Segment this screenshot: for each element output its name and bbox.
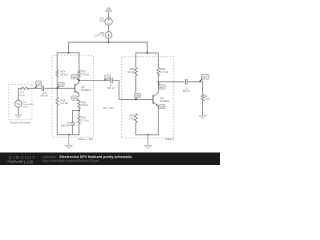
wire R05 to collector node2 bbox=[157, 76, 159, 82]
capacitor C1 680 uF bbox=[61, 121, 75, 128]
svg-text:6.2V: 6.2V bbox=[160, 87, 165, 89]
svg-text:3.1V: 3.1V bbox=[202, 77, 207, 79]
node annotation bubble (Q2 base) bbox=[134, 93, 140, 99]
wire R08 to bottom rail bbox=[56, 105, 58, 134]
svg-text:680 uF: 680 uF bbox=[61, 123, 70, 127]
ammeter AM1 0.677 uA bbox=[94, 32, 112, 39]
node annotation bubble (Q2 emitter) bbox=[159, 105, 166, 109]
wire V01 to AM1 bbox=[108, 25, 110, 31]
wire VS1 top bbox=[17, 88, 19, 100]
power supply arrow (+V net, up) bbox=[105, 7, 112, 18]
junction tap bbox=[78, 110, 80, 112]
svg-text:1.7V: 1.7V bbox=[36, 83, 41, 85]
junction stage2 out bbox=[157, 81, 159, 83]
resistor R02 1.2 k bbox=[78, 116, 89, 124]
svg-text:50 Ω: 50 Ω bbox=[20, 95, 25, 97]
capacitor C2 680 uF bbox=[107, 78, 115, 90]
svg-text:1 kΩ: 1 kΩ bbox=[204, 97, 210, 101]
resistor R08 1.2 k bbox=[56, 97, 68, 105]
CircuitLab logo bbox=[7, 155, 36, 165]
svg-text:680 uF: 680 uF bbox=[183, 91, 191, 93]
svg-text:2N3904: 2N3904 bbox=[81, 88, 91, 92]
resistor R01 4.9 k bbox=[78, 70, 89, 77]
resistor RS1 50 ohm bbox=[18, 87, 29, 97]
junction base node bbox=[56, 87, 58, 89]
rail wire stage1 top bbox=[57, 53, 79, 70]
svg-text:LAB: LAB bbox=[24, 159, 34, 164]
svg-text:91 kΩ: 91 kΩ bbox=[127, 70, 134, 74]
voltage source V01 12 V bbox=[99, 17, 112, 25]
junction ground stage2 bbox=[147, 134, 149, 136]
svg-text:39 kΩ: 39 kΩ bbox=[60, 73, 67, 77]
resistor R05 4.7 k bbox=[157, 67, 168, 75]
node annotation bubble (stage1 out) bbox=[104, 75, 110, 80]
wire tap to C1 bbox=[72, 111, 79, 123]
source VS1 sine bbox=[15, 100, 35, 108]
transistor Q1 2N3904 bbox=[75, 81, 91, 98]
junction rail1/feed bbox=[68, 52, 70, 54]
resistor RL 1 k bbox=[201, 94, 210, 101]
svg-text:hfe = 100: hfe = 100 bbox=[103, 107, 114, 110]
svg-text:4.9 kΩ: 4.9 kΩ bbox=[81, 73, 89, 77]
svg-text:1.8V: 1.8V bbox=[135, 96, 140, 98]
node annotation bubble (R01 collector) bbox=[71, 75, 78, 81]
dashed box Stage 2 bbox=[122, 57, 174, 138]
node annotation bubble (output Vout) bbox=[199, 74, 209, 81]
wire R04 to base node bbox=[56, 77, 58, 98]
node annotation bubble (Q1 emitter) bbox=[72, 96, 79, 101]
transistor Q2 2N3904 bbox=[153, 82, 170, 135]
junction base node2 bbox=[135, 99, 137, 101]
svg-text:Function Generator: Function Generator bbox=[10, 122, 31, 125]
dashed box Stage 1 bbox=[52, 56, 93, 137]
wire R06 to base node2 bbox=[135, 76, 137, 100]
svg-text:7.1V: 7.1V bbox=[106, 77, 111, 79]
ground arrow function generator bbox=[15, 115, 22, 119]
bottom rail stage1 bbox=[57, 134, 79, 136]
svg-text:Stage 2: Stage 2 bbox=[165, 138, 174, 141]
svg-text:http://circuitlab.com/c/62s8mn: http://circuitlab.com/c/62s8mn22jvdb bbox=[43, 159, 100, 163]
wire fngen to C4 to base bbox=[29, 87, 57, 89]
capacitor C4 680 uF bbox=[41, 86, 49, 98]
svg-text:5 kHz: 5 kHz bbox=[23, 106, 29, 108]
wire stage2 out to C3 bbox=[158, 81, 184, 83]
capacitor C3 680 uF bbox=[183, 79, 191, 93]
svg-text:1.2V: 1.2V bbox=[160, 107, 165, 109]
wire C2 to stage2 base bbox=[113, 81, 153, 100]
junction ground stage1 bbox=[68, 134, 70, 136]
bottom rail stage2 bbox=[136, 134, 159, 136]
rail wire stage2 top bbox=[136, 53, 159, 68]
wire AM1 to bus bbox=[108, 38, 110, 42]
resistor R04 39 k bbox=[56, 70, 68, 77]
wire VS1 bottom bbox=[17, 107, 19, 114]
svg-text:1.7V: 1.7V bbox=[59, 85, 64, 87]
node annotation bubble (input) bbox=[35, 81, 42, 88]
svg-text:4.9V: 4.9V bbox=[72, 77, 77, 79]
ground arrow stage1 bbox=[65, 135, 73, 149]
svg-text:4.7 kΩ: 4.7 kΩ bbox=[160, 70, 168, 74]
resistor R06 91 k bbox=[127, 67, 137, 75]
svg-text:1.2 kΩ: 1.2 kΩ bbox=[81, 118, 89, 122]
wire C1 to bottom rail bbox=[71, 125, 73, 135]
ground arrow output bbox=[199, 115, 207, 119]
wire RL to ground bbox=[202, 101, 204, 115]
dashed box function generator bbox=[9, 84, 32, 119]
node annotation bubble (Q1 base) bbox=[57, 82, 64, 88]
wire R02 to bottom rail bbox=[78, 124, 80, 135]
svg-text:12 V: 12 V bbox=[99, 20, 104, 23]
node annotation bubble (Q2 collector) bbox=[158, 82, 165, 89]
svg-text:1.1V: 1.1V bbox=[73, 98, 78, 100]
svg-text:680 uF: 680 uF bbox=[107, 88, 115, 90]
junction stage1 out bbox=[78, 80, 80, 82]
svg-text:680 uF: 680 uF bbox=[41, 95, 49, 97]
svg-text:Stage 1 - Diff: Stage 1 - Diff bbox=[78, 138, 93, 141]
wire C3 to RL bbox=[188, 82, 203, 94]
resistor R07 1 k bbox=[129, 114, 137, 123]
junction bus/ammeter bbox=[108, 41, 110, 43]
svg-text:2N3904: 2N3904 bbox=[160, 99, 170, 103]
wire stage1 out to C2 bbox=[79, 80, 110, 82]
resistor R03 130 ohm bbox=[78, 100, 89, 109]
junction rail2/feed bbox=[146, 52, 148, 54]
supply bus wire bbox=[69, 42, 148, 53]
svg-text:130 Ω: 130 Ω bbox=[81, 103, 88, 107]
ground arrow stage2 bbox=[144, 135, 152, 149]
wire Q1 base bbox=[57, 87, 75, 89]
wire R07 to bottom rail2 bbox=[135, 123, 137, 135]
svg-text:0.677 uA: 0.677 uA bbox=[94, 35, 104, 38]
wire R01 to collector node bbox=[78, 77, 80, 81]
wire R03 to R02 with tap bbox=[78, 109, 80, 116]
footer bar bbox=[0, 153, 220, 166]
svg-text:1 kΩ: 1 kΩ bbox=[129, 117, 135, 121]
svg-text:1.2 kΩ: 1.2 kΩ bbox=[60, 101, 68, 105]
